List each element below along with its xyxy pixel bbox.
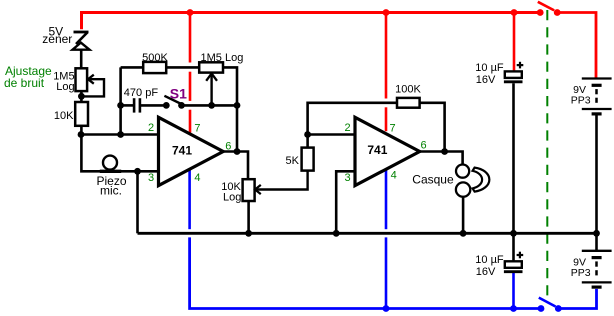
node C2 ground junction [510, 230, 517, 237]
wire feedback up to R4 [308, 103, 397, 135]
potentiometer P1 wiper loop [83, 79, 105, 96]
wire -9V blue rail right segment to battery [558, 289, 596, 309]
node U2 pin3 ground junction [333, 230, 340, 237]
label 5V zener [42, 24, 72, 46]
svg-text:100K: 100K [395, 83, 421, 95]
wire R2 to P2 [166, 66, 199, 69]
wire B1 negative to 0V rail [595, 116, 598, 234]
svg-text:4: 4 [194, 172, 200, 184]
svg-text:Log: Log [56, 81, 74, 93]
node headphones ground junction [460, 230, 467, 237]
switch SW-top lever [538, 2, 554, 11]
label Piezo mic [96, 174, 126, 198]
potentiometer P1 1M5 Log body [76, 68, 88, 91]
node R1 bottom junction [78, 131, 85, 138]
wire U2 pin4 supply [385, 170, 388, 309]
battery B2 9V PP3 bottom [582, 251, 612, 287]
svg-text:741: 741 [367, 143, 387, 157]
wire U1 pin3 stub [138, 170, 159, 173]
node P1 wiper junction [78, 93, 85, 100]
svg-text:7: 7 [194, 123, 200, 135]
svg-text:6: 6 [420, 140, 426, 152]
wire B2 positive lead [595, 233, 598, 250]
wire P3 bottom to 0V rail [247, 201, 250, 233]
svg-text:PP3: PP3 [571, 267, 591, 279]
svg-text:Log: Log [223, 191, 241, 203]
resistor R1 10K body [75, 102, 88, 126]
svg-text:Casque: Casque [412, 172, 454, 186]
wire mic branch down and right [81, 135, 137, 172]
zener D1 5V [73, 32, 90, 50]
wire R3 to U2 pin2 node [306, 135, 309, 148]
node battery ground junction [593, 230, 600, 237]
op-amp U1 741 [159, 117, 224, 185]
svg-text:10 µF: 10 µF [475, 62, 504, 74]
label C2 10uF 16V [475, 62, 504, 86]
svg-text:7: 7 [389, 123, 395, 135]
wire P2 wiper arrow [206, 73, 217, 105]
wire P2 right down to pin6 node [223, 67, 237, 151]
wire U2 pin2 stub [308, 133, 355, 136]
label B2 9V PP3 [571, 257, 591, 280]
potentiometer P2 1M5 Log body [199, 62, 223, 72]
capacitor C2 plus sign [517, 62, 524, 69]
battery B1 9V PP3 top [582, 79, 612, 114]
svg-text:16V: 16V [476, 266, 496, 278]
wire U2 pin3 stub [336, 171, 355, 233]
wire C2 to 0V rail [512, 83, 515, 233]
svg-text:500K: 500K [142, 52, 168, 64]
wire S1 to pin6 branch [182, 104, 238, 107]
headphones CASQUE band arc [473, 168, 490, 192]
wire R4 to U2 pin6 [420, 103, 445, 152]
wire P3 wiper to R3 [255, 171, 307, 190]
svg-text:5K: 5K [286, 155, 300, 167]
capacitor C2 10uF positive plate [505, 71, 522, 78]
net V- dashed reference line [546, 10, 548, 302]
svg-text:de bruit: de bruit [4, 76, 45, 90]
svg-text:2: 2 [344, 122, 350, 134]
svg-text:10K: 10K [54, 110, 74, 122]
node S1 right contact [178, 102, 185, 109]
wire headphones to 0V rail [462, 197, 465, 234]
svg-text:1M5 Log: 1M5 Log [201, 52, 244, 64]
svg-text:PP3: PP3 [571, 95, 591, 107]
headphones CASQUE jacks [456, 165, 470, 197]
switch SW-bottom lever [539, 298, 556, 307]
microphone MIC piezo symbol [100, 156, 121, 172]
svg-text:zener: zener [42, 32, 72, 46]
node feedback-pin2 junction [117, 131, 124, 138]
node mic junction [134, 168, 141, 175]
svg-text:3: 3 [148, 172, 154, 184]
wire P1 to R1 [80, 91, 83, 102]
op-amp U2 741 [355, 117, 420, 185]
wire U1 pin7 supply [189, 13, 192, 133]
node P3 ground junction [245, 230, 252, 237]
wire U2 pin6 output [420, 152, 463, 165]
svg-text:10 µF: 10 µF [475, 254, 504, 266]
wire ground branch down [136, 171, 139, 233]
label P3 10K Log [221, 181, 241, 203]
wire C3 top lead [512, 233, 515, 261]
node blue rail junctions [383, 305, 562, 312]
wire U1 pin6 output [223, 152, 248, 180]
wire R1 to node pin2 [80, 126, 83, 135]
svg-text:16V: 16V [476, 74, 496, 86]
wire top feedback to R2 [121, 66, 144, 69]
wire D1 anode to P1 [80, 51, 83, 69]
svg-text:6: 6 [225, 141, 231, 153]
wire inverting input U1 pin2 [81, 133, 158, 136]
wire U2 pin7 supply [385, 13, 388, 131]
capacitor C2 negative plate [504, 80, 523, 83]
node feedback right junction [234, 102, 241, 109]
resistor R2 500K body [143, 62, 166, 73]
resistor R3 5K body [302, 148, 314, 171]
label C3 10uF 16V [475, 254, 504, 278]
switch S1 lever [164, 96, 181, 104]
capacitor C3 plus sign [517, 252, 524, 259]
wire -9V blue rail left segment [190, 237, 541, 308]
svg-text:S1: S1 [170, 86, 187, 102]
svg-text:4: 4 [391, 169, 397, 181]
wire feedback left branch [119, 67, 122, 134]
wire cap rail left [121, 104, 134, 107]
label B1 9V PP3 [571, 84, 591, 107]
node red rail junctions [187, 9, 561, 16]
capacitor C1 470pF [134, 98, 140, 112]
node U1 pin6 junction [234, 148, 241, 155]
capacitor C3 negative plate [504, 270, 523, 273]
label Ajustage de bruit [4, 64, 52, 90]
wire +9V red rail right segment to battery [557, 13, 596, 78]
node cap rail left junction [117, 102, 124, 109]
svg-text:470 pF: 470 pF [124, 87, 159, 99]
node U2 pin2 junction [304, 131, 311, 138]
svg-text:mic.: mic. [100, 184, 122, 198]
svg-text:2: 2 [148, 122, 154, 134]
svg-text:741: 741 [172, 144, 192, 158]
wire U1 pin4 supply [188, 170, 191, 229]
wire C1 to S1 [141, 104, 166, 107]
resistor R4 100K body [397, 98, 420, 108]
svg-text:3: 3 [344, 172, 350, 184]
wire +9V red rail left segment [82, 13, 541, 30]
wire C3 negative lead [512, 272, 515, 309]
node S1 left contact [163, 102, 170, 109]
wire C2 positive lead [513, 13, 516, 71]
wire 0V middle rail [138, 232, 597, 235]
label P1 1M5 Log [53, 71, 74, 93]
capacitor C3 10uF positive plate [505, 261, 522, 268]
node wiper junction [208, 102, 215, 109]
node U2 pin6 junction [441, 148, 448, 155]
potentiometer P3 10K Log body [243, 179, 255, 201]
